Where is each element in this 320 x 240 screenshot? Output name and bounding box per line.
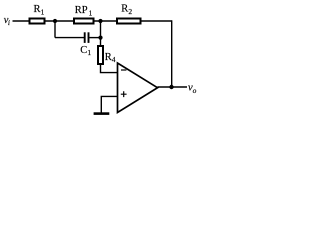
wire C1 right lead [89, 37, 100, 39]
svg-text:2: 2 [128, 7, 132, 16]
node C1-R4 junction dot [98, 36, 102, 40]
wire R1 to RP1 [46, 20, 75, 22]
op-amp U1 triangle [118, 63, 158, 113]
svg-text:1: 1 [89, 9, 93, 18]
svg-text:1: 1 [87, 48, 91, 57]
svg-text:4: 4 [112, 55, 116, 64]
resistor R4 [98, 46, 116, 64]
node B junction dot [98, 19, 102, 23]
wire C1 left lead [55, 37, 84, 39]
wire node A down to C1 level [54, 21, 56, 38]
wire R4 bottom to op-amp inverting input [101, 65, 118, 73]
wire R2 to feedback corner [142, 20, 172, 22]
svg-text:R: R [34, 4, 41, 15]
resistor R1 [30, 4, 45, 24]
node A junction dot [53, 19, 57, 23]
resistor R2 [117, 4, 141, 24]
wire op-amp non-inverting input to ground [101, 96, 117, 113]
svg-text:o: o [193, 86, 197, 95]
op-amp minus sign [121, 69, 126, 71]
svg-text:i: i [8, 18, 10, 27]
op-amp plus sign [121, 91, 127, 97]
svg-text:C: C [80, 45, 87, 56]
svg-text:1: 1 [41, 7, 45, 16]
wire node B down to R4 [100, 21, 102, 46]
wire feedback vertical to output node [171, 20, 173, 87]
svg-text:RP: RP [75, 5, 88, 16]
capacitor C1 [80, 32, 91, 57]
ground [94, 112, 110, 115]
svg-text:R: R [121, 4, 128, 15]
potentiometer RP1 [74, 5, 94, 23]
node vo output label [188, 83, 197, 95]
node output junction dot [169, 85, 173, 89]
wire input vi to R1 [13, 20, 30, 22]
node vi input label [4, 15, 10, 27]
wire RP1 to R2 [95, 20, 118, 22]
wire op-amp output to vo [158, 86, 188, 88]
